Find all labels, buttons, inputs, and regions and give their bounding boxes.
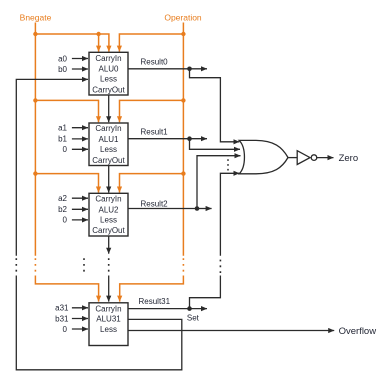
wire input a31 bbox=[72, 307, 88, 309]
svg-text:Operation: Operation bbox=[164, 12, 202, 22]
svg-text:Zero: Zero bbox=[339, 153, 359, 164]
wire Operation rail vertical bbox=[182, 34, 184, 256]
svg-text:CarryIn: CarryIn bbox=[95, 54, 121, 63]
wire Result31 bbox=[128, 308, 190, 310]
wire Result31 to zero gate upper bbox=[220, 173, 239, 256]
wire carry chain ALU2 down arrow bbox=[108, 236, 110, 254]
svg-text:CarryIn: CarryIn bbox=[95, 304, 121, 313]
junction Bnegate header bbox=[33, 32, 37, 36]
zero gate input ellipsis bbox=[227, 159, 229, 170]
svg-text:CarryIn: CarryIn bbox=[95, 124, 121, 133]
wire carry chain ALU1 to ALU2 bbox=[108, 166, 110, 193]
wire Operation rail dotted ellipsis bbox=[182, 258, 184, 273]
svg-text:Result0: Result0 bbox=[141, 58, 169, 67]
wire Bnegate rail to ALU31 Binvert bbox=[35, 276, 98, 302]
wire input 0 row2 bbox=[72, 219, 88, 221]
wire Bnegate branch ALU1 bbox=[35, 100, 98, 122]
svg-text:b2: b2 bbox=[58, 205, 67, 214]
junction Operation row1 bbox=[181, 98, 185, 102]
wire Result31 riser dotted ellipsis bbox=[219, 258, 221, 273]
wire Zero output bbox=[316, 157, 333, 159]
svg-text:a1: a1 bbox=[58, 124, 67, 133]
junction Bnegate row1 bbox=[33, 98, 37, 102]
wire carry chain ALU0 to ALU1 bbox=[108, 95, 110, 122]
svg-text:Less: Less bbox=[100, 145, 117, 154]
svg-text:ALU1: ALU1 bbox=[98, 135, 119, 144]
wire Operation branch ALU1 bbox=[120, 100, 184, 122]
svg-text:a0: a0 bbox=[58, 54, 67, 63]
OR gate G1 for zero detect bbox=[239, 140, 288, 173]
junction ALU0 Binvert bbox=[96, 32, 100, 36]
wire input b2 bbox=[72, 208, 88, 210]
svg-text:b1: b1 bbox=[58, 135, 67, 144]
svg-text:0: 0 bbox=[63, 325, 68, 334]
wire Result31 to zero gate lower bbox=[190, 276, 221, 309]
svg-text:Less: Less bbox=[100, 216, 117, 225]
ALU31 U31 box bbox=[89, 303, 128, 346]
wire inputs dotted ellipsis bbox=[83, 258, 85, 273]
wire Result2 to zero gate bbox=[197, 156, 241, 209]
wire Bnegate rail dotted ellipsis bbox=[34, 258, 36, 273]
wire input a2 bbox=[72, 197, 88, 199]
wire Result0 to zero gate bbox=[190, 69, 240, 142]
junction Result0 bbox=[187, 67, 192, 72]
junction Operation row2 bbox=[181, 171, 185, 175]
wire Result2 stub arrow bbox=[197, 208, 212, 210]
junction Result1 bbox=[187, 136, 192, 141]
svg-text:Less: Less bbox=[100, 325, 117, 334]
svg-text:Overflow: Overflow bbox=[339, 326, 377, 337]
wire Result1 stub arrow bbox=[190, 138, 208, 140]
wire Set feedback dotted ellipsis bbox=[15, 258, 17, 273]
wire carry chain dotted ellipsis bbox=[108, 258, 110, 273]
wire Bnegate branch ALU2 bbox=[35, 174, 98, 193]
svg-text:CarryOut: CarryOut bbox=[92, 86, 125, 95]
svg-text:ALU0: ALU0 bbox=[98, 65, 119, 74]
inverter G2 bubble bbox=[311, 155, 317, 161]
wire input 0 row31 bbox=[72, 328, 88, 330]
svg-text:a2: a2 bbox=[58, 194, 67, 203]
wire Result0 stub arrow bbox=[190, 68, 208, 70]
svg-text:b0: b0 bbox=[58, 65, 67, 74]
ALU0 U0 box bbox=[89, 52, 128, 95]
wire carry chain into ALU31 bbox=[108, 276, 110, 302]
svg-text:CarryOut: CarryOut bbox=[92, 226, 125, 235]
junction Result2 bbox=[195, 206, 200, 211]
wire input b0 bbox=[72, 68, 88, 70]
junction Bnegate row2 bbox=[33, 171, 37, 175]
wire Bnegate stem bbox=[34, 23, 36, 35]
svg-text:0: 0 bbox=[63, 216, 68, 225]
ALU2 U2 box bbox=[89, 193, 128, 236]
wire input a1 bbox=[72, 127, 88, 129]
wire Operation branch ALU2 bbox=[120, 174, 184, 193]
svg-text:Result31: Result31 bbox=[139, 297, 171, 306]
wire Operation rail to ALU31 bbox=[120, 276, 184, 302]
wire Set feedback bottom loop bbox=[16, 276, 182, 370]
junction Operation header bbox=[181, 32, 185, 36]
wire Result31 stub arrow bbox=[190, 308, 208, 310]
wire input b31 bbox=[72, 318, 88, 320]
wire Bnegate header to ALU0 CarryIn bbox=[35, 34, 109, 52]
wire Overflow output bbox=[128, 330, 334, 332]
wire Operation header to ALU0 bbox=[119, 34, 183, 52]
svg-text:b31: b31 bbox=[55, 314, 69, 323]
ALU1 U1 box bbox=[89, 123, 128, 166]
svg-text:ALU31: ALU31 bbox=[96, 315, 121, 324]
svg-text:ALU2: ALU2 bbox=[98, 205, 119, 214]
svg-text:0: 0 bbox=[63, 145, 68, 154]
wire input b1 bbox=[72, 138, 88, 140]
junction Result31 bbox=[187, 306, 192, 311]
svg-text:Result2: Result2 bbox=[141, 199, 169, 208]
svg-text:CarryIn: CarryIn bbox=[95, 195, 121, 204]
wire Result2 bbox=[128, 208, 197, 210]
wire Operation stem bbox=[182, 23, 184, 35]
svg-text:CarryOut: CarryOut bbox=[92, 156, 125, 165]
wire Result1 to zero gate bbox=[190, 139, 241, 150]
svg-text:a31: a31 bbox=[55, 304, 69, 313]
wire Result1 bbox=[128, 138, 190, 140]
svg-text:Set: Set bbox=[187, 313, 200, 322]
wire input 0 row1 bbox=[72, 148, 88, 150]
svg-text:Result1: Result1 bbox=[141, 128, 169, 137]
wire input a0 bbox=[72, 58, 88, 60]
svg-text:Bnegate: Bnegate bbox=[20, 12, 52, 22]
svg-text:Less: Less bbox=[100, 74, 117, 83]
wire Set feedback into ALU0 Less bbox=[16, 79, 88, 255]
inverter G2 triangle bbox=[288, 157, 297, 159]
wire Bnegate branch ALU0 Binvert bbox=[98, 34, 100, 52]
wire Bnegate rail vertical bbox=[34, 34, 36, 256]
wire Result0 bbox=[128, 68, 190, 70]
